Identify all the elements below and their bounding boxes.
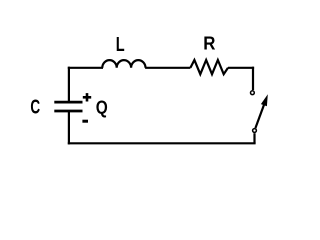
- switch blade: [255, 104, 264, 128]
- wire right vertical down to switch: [252, 67, 254, 90]
- svg-text:L: L: [116, 34, 125, 56]
- wire bottom horizontal: [68, 142, 256, 144]
- wire top horizontal middle: [145, 67, 190, 69]
- wire below switch down: [253, 133, 255, 143]
- svg-text:Q: Q: [96, 96, 108, 117]
- switch bottom terminal: [253, 129, 257, 133]
- wire top horizontal left: [68, 67, 103, 69]
- inductor L: [102, 60, 145, 68]
- wire left vertical top (capacitor top lead): [68, 67, 70, 102]
- switch top terminal: [251, 91, 255, 95]
- resistor R: [190, 60, 228, 74]
- svg-text:R: R: [203, 33, 215, 54]
- switch blade arrowhead: [261, 94, 268, 106]
- capacitor polarity minus: [82, 120, 88, 123]
- svg-text:C: C: [30, 96, 40, 118]
- capacitor C plates: [54, 102, 82, 111]
- wire top horizontal right: [228, 67, 254, 69]
- wire left vertical bottom (capacitor bottom lead): [68, 111, 70, 145]
- capacitor polarity plus: [83, 93, 91, 101]
